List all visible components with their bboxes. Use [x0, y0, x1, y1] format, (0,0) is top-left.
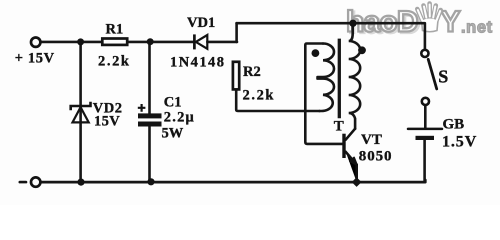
junction dot bottom C1 — [147, 178, 154, 185]
logo hand glyph — [417, 4, 440, 32]
node B junction dot (C1 branch) — [147, 38, 154, 45]
svg-text:1.5V: 1.5V — [442, 134, 477, 151]
svg-text:S: S — [438, 66, 448, 86]
logo haoDIY.net watermark — [346, 4, 493, 41]
switch S bottom contact — [422, 98, 429, 105]
node A junction dot (VD2 branch) — [77, 38, 84, 45]
terminal + input — [31, 38, 40, 47]
svg-text:+ 15V: + 15V — [15, 51, 55, 67]
junction dot bottom VD2 — [77, 179, 84, 186]
svg-text:2.2μ: 2.2μ — [164, 109, 195, 125]
svg-text:2.2k: 2.2k — [98, 53, 131, 69]
transformer T primary winding (left) — [318, 44, 335, 112]
svg-text:T: T — [334, 118, 344, 134]
svg-text:GB: GB — [443, 117, 465, 133]
wire C1 branch vertical bottom — [148, 126, 151, 182]
capacitor C1 — [138, 113, 162, 126]
switch S lever — [428, 59, 437, 89]
wire bottom rail — [41, 180, 426, 182]
wire left winding top to bracket — [305, 44, 342, 144]
wire top rail left (from + terminal to node after R1/VD1 tee) — [41, 41, 194, 44]
svg-text:R1: R1 — [106, 22, 124, 38]
zener diode VD2 — [71, 102, 91, 123]
svg-text:VD1: VD1 — [187, 15, 215, 31]
resistor R2 — [233, 62, 239, 90]
junction dot top rail / secondary — [349, 20, 356, 27]
wire switch to battery — [424, 106, 427, 128]
wire top between VD1 and tee — [207, 41, 237, 44]
minus sign — [20, 181, 26, 184]
svg-text:5W: 5W — [162, 125, 184, 141]
wire battery branch lower — [423, 139, 426, 182]
wire C1 branch vertical top — [148, 42, 151, 114]
wire top-right rail — [237, 23, 425, 49]
resistor R1 — [102, 39, 127, 45]
wire tee vertical at node A — [235, 23, 238, 42]
primary phase dot — [312, 49, 320, 57]
svg-text:8050: 8050 — [359, 148, 393, 164]
transformer T secondary winding (right) — [349, 23, 361, 128]
svg-text:VT: VT — [361, 132, 382, 148]
wire VD2 branch vertical — [79, 42, 82, 182]
battery GB positive plate — [408, 128, 442, 131]
svg-text:Y: Y — [441, 6, 461, 39]
svg-text:2.2k: 2.2k — [243, 88, 276, 104]
switch S top contact — [421, 50, 428, 57]
terminal - input — [31, 177, 40, 186]
svg-text:1N4148: 1N4148 — [170, 55, 225, 71]
svg-text:.net: .net — [461, 19, 493, 37]
battery GB negative plate — [416, 136, 435, 140]
wire R2 bottom to winding (base feed) — [236, 91, 319, 111]
secondary phase dot — [358, 46, 366, 54]
svg-text:C1: C1 — [164, 95, 182, 111]
svg-text:R2: R2 — [243, 64, 261, 80]
diode VD1 — [194, 34, 207, 49]
svg-text:15V: 15V — [94, 114, 120, 130]
plus sign C1 — [138, 104, 146, 112]
transistor VT 8050 — [342, 129, 357, 182]
emitter junction diamond dot — [352, 177, 362, 187]
transformer core — [338, 39, 341, 119]
